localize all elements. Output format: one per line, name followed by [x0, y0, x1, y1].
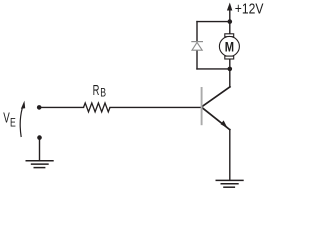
wire collector diagonal [202, 87, 230, 107]
svg-text:M: M [225, 38, 234, 54]
svg-text:R: R [93, 82, 100, 99]
node VE bottom [37, 135, 42, 140]
wire motor top lead [229, 22, 231, 34]
motor M top terminal [225, 34, 234, 37]
node VE top [37, 105, 42, 110]
ground right [216, 180, 244, 187]
node junction top [228, 19, 233, 24]
wire base from top node to resistor [41, 106, 84, 108]
diode D1 triangle [192, 42, 202, 50]
transistor Q1 emitter arrowhead [221, 120, 228, 128]
wire VE bottom node to ground [39, 139, 41, 160]
svg-text:B: B [100, 86, 106, 100]
ground left [26, 161, 54, 168]
node junction bottom [228, 67, 233, 72]
transistor Q1 base bar [201, 87, 203, 125]
wire bottom horizontal from diode to junction [197, 68, 230, 70]
wire top horizontal to diode branch [197, 21, 230, 23]
wire diode top lead [196, 22, 198, 41]
resistor RB zigzag [84, 103, 111, 112]
motor M bottom terminal [225, 56, 234, 59]
svg-text:+12V: +12V [235, 2, 264, 18]
svg-text:E: E [10, 116, 16, 130]
VE curved arrow [20, 109, 22, 138]
svg-text:V: V [3, 110, 10, 127]
motor M body [219, 36, 239, 56]
+12V supply arrow [229, 9, 231, 22]
wire emitter diagonal [202, 108, 230, 130]
diode D1 cathode bar [191, 41, 203, 43]
+12V arrowhead [227, 3, 232, 11]
wire collector vertical [229, 69, 231, 87]
wire emitter vertical to ground [229, 130, 231, 181]
wire motor bottom lead [229, 59, 231, 69]
wire diode bottom lead [196, 50, 198, 69]
wire base from resistor to transistor [110, 106, 201, 108]
